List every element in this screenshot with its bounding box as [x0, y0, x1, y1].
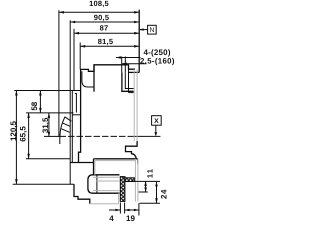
body seam above terminal — [94, 158, 138, 160]
dimension 19 — [125, 209, 139, 212]
svg-text:X: X — [154, 118, 159, 125]
svg-text:81,5: 81,5 — [98, 37, 113, 46]
dimension texts — [9, 0, 175, 223]
body bottom left — [74, 184, 90, 204]
breaker top outline — [80, 65, 135, 72]
svg-text:31,5: 31,5 — [41, 117, 50, 133]
hatched mounting bracket — [120, 177, 134, 202]
leader 2.5-(160) — [122, 63, 147, 66]
lower front edge — [93, 159, 95, 175]
node N marker with leader — [139, 25, 156, 34]
collar inner front face — [71, 91, 73, 163]
rear gray planes upper — [134, 69, 137, 141]
dashed datum line to X — [60, 135, 132, 137]
extension line: handle tip level — [44, 135, 60, 137]
escutcheon left wall — [93, 65, 95, 92]
cover inner pocket — [82, 71, 94, 87]
cover front face — [79, 69, 81, 162]
collar foot — [70, 162, 93, 164]
dimension 65,5 — [27, 113, 30, 159]
extension line: terminal bottom — [139, 191, 148, 193]
rear gray planes lower — [90, 159, 138, 204]
svg-text:120,5: 120,5 — [9, 120, 18, 141]
terminal strap outer edge — [122, 72, 134, 91]
handle — [60, 117, 72, 144]
DIN tab — [126, 141, 138, 159]
svg-text:24: 24 — [160, 189, 169, 199]
svg-text:65,5: 65,5 — [18, 126, 27, 142]
extension line: collar top — [14, 90, 80, 92]
extension lines: bracket plate and rear plane — [120, 203, 138, 216]
extension line: handle pivot level — [26, 112, 74, 114]
svg-text:N: N — [149, 27, 154, 34]
collar step to cover — [72, 114, 80, 116]
dimension 11 — [144, 181, 147, 192]
node X marker — [152, 116, 162, 137]
svg-text:58: 58 — [30, 101, 39, 110]
dimension 108,5 — [59, 10, 139, 137]
wire: right reference plane vertical (rear mounting plane) — [138, 10, 140, 73]
svg-text:11: 11 — [146, 168, 155, 178]
escutcheon right wall — [128, 69, 130, 92]
extension line: bracket arm bottom — [134, 180, 160, 182]
datum line solid end at X arrow — [131, 135, 160, 137]
dimension 4 — [109, 209, 120, 212]
svg-text:4-(250): 4-(250) — [144, 48, 171, 57]
rear deck seam — [129, 71, 140, 73]
svg-text:108,5: 108,5 — [89, 0, 109, 8]
dimension 120,5 — [15, 91, 18, 185]
dimension 58 — [39, 91, 42, 113]
svg-text:90,5: 90,5 — [94, 13, 109, 22]
dimension 24 — [155, 181, 158, 203]
extension line: collar bottom — [26, 158, 70, 160]
svg-text:87: 87 — [100, 24, 109, 33]
terminal stud ticks — [122, 57, 126, 73]
extension line: foot bottom — [140, 202, 161, 204]
svg-text:19: 19 — [126, 214, 135, 223]
rear lower stub — [137, 159, 139, 164]
leader 4-(250) — [116, 56, 141, 59]
handle window edge — [75, 94, 77, 113]
dimension 81,5 — [80, 43, 139, 70]
cover surface lines near rear — [129, 92, 134, 94]
terminal strap inner edge — [125, 72, 133, 88]
terminal cylinder — [88, 175, 120, 193]
svg-text:4: 4 — [109, 214, 114, 223]
dimension 87 — [74, 29, 139, 91]
terminal cylinder seam — [96, 175, 98, 193]
dimension 31,5 — [48, 113, 51, 137]
svg-text:2.5-(160): 2.5-(160) — [140, 57, 175, 66]
extension line: body bottom — [13, 183, 74, 185]
dimension 90,5 — [70, 20, 139, 184]
